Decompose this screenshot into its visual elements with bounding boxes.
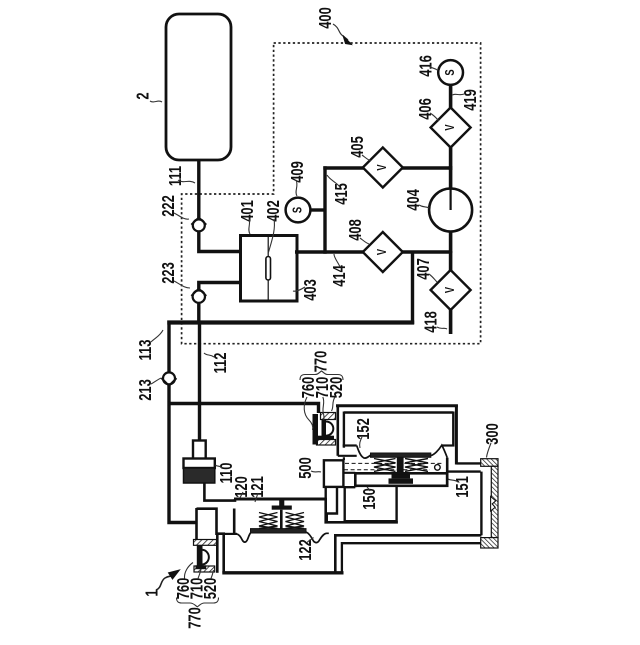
svg-text:520: 520 (327, 376, 347, 398)
label 710 top (313, 376, 333, 420)
label 710 bottom (188, 569, 208, 599)
label 300 (483, 423, 503, 458)
label 122 (296, 538, 316, 561)
needle cap bar2 (389, 478, 414, 483)
svg-text:408: 408 (346, 219, 366, 241)
svg-text:406: 406 (416, 98, 436, 120)
bottom connector hatch lower (194, 566, 215, 572)
svg-text:407: 407 (414, 258, 434, 280)
svg-text:V: V (444, 124, 458, 131)
svg-text:V: V (376, 249, 390, 256)
wire vertical x325 (323, 166, 326, 253)
stub to wall lower line (447, 470, 481, 472)
jog down to long line (326, 513, 328, 522)
label 415 (327, 175, 352, 205)
wire y252 box to pump bottom (295, 250, 451, 253)
label 416 (417, 55, 437, 77)
svg-text:405: 405 (348, 136, 368, 158)
svg-text:414: 414 (330, 265, 350, 287)
chamber 122 right wave (306, 532, 329, 543)
svg-text:111: 111 (166, 166, 186, 186)
label 408 (346, 219, 369, 244)
label 150 (360, 487, 380, 510)
passage 500 to chamber (338, 456, 357, 473)
wire diamond406 to S416 and to y168 (449, 85, 453, 108)
label 121 (248, 476, 268, 502)
dashed boundary 400 (182, 43, 481, 344)
component 110 body (184, 459, 215, 469)
component 110 stem (193, 441, 206, 460)
box 150 upper (355, 473, 447, 486)
svg-text:402: 402 (264, 200, 284, 222)
divider in box 401 (267, 236, 269, 302)
brace top group (300, 371, 343, 380)
body outline left of connector region (197, 509, 224, 573)
funnel inner-left wall (233, 509, 236, 534)
bottom connector black bar (196, 565, 207, 569)
inner chamber bottom right segment (442, 444, 455, 446)
wire tank to valve 222 (197, 160, 200, 219)
valve diamond 405 (363, 148, 403, 188)
top connector black bar bottom (317, 436, 334, 440)
top connector left black bar (313, 414, 319, 445)
dashed centerline upper (345, 462, 444, 464)
top connector inner black bar (322, 420, 327, 438)
svg-text:500: 500 (296, 457, 316, 479)
chamber 152 top bar (371, 453, 431, 457)
label 418 (422, 311, 447, 333)
bottom connector hatch upper (194, 540, 217, 546)
label 110 (216, 462, 237, 483)
label 770 top (300, 350, 343, 380)
chamber 150 right wall (446, 458, 449, 486)
wire diamond 407 top (449, 251, 453, 271)
sensor S 416 (438, 60, 463, 85)
wall 300 web (491, 466, 498, 537)
label 414 (330, 254, 350, 287)
svg-text:416: 416 (417, 55, 437, 77)
long line H3 to wall (342, 543, 482, 573)
label 520 top (327, 376, 347, 411)
wall 300 notch (491, 497, 496, 512)
svg-text:1: 1 (143, 589, 163, 596)
label 402 (264, 200, 284, 254)
body outer left notch (336, 405, 339, 456)
long line H2 to wall (335, 535, 481, 573)
component 110 dark base (184, 468, 215, 483)
svg-text:400: 400 (316, 7, 336, 29)
wire 112 down to 110 (198, 321, 201, 442)
valve diamond 408 (363, 232, 403, 272)
label 223 (159, 262, 190, 288)
svg-text:419: 419 (461, 89, 481, 111)
label 222 (159, 195, 189, 219)
label 404 (404, 189, 429, 211)
inner chamber bottom left segment (343, 444, 357, 446)
svg-text:409: 409 (288, 161, 308, 183)
label 403 (293, 279, 321, 301)
spring left (120 area) (259, 513, 278, 529)
sensor S 409 (286, 198, 311, 223)
wire sensor 409 stub (310, 208, 326, 211)
seat plate (hatched bar) (251, 529, 307, 533)
spring right (152) (405, 459, 428, 472)
needle cap bar1 (392, 474, 411, 479)
label 520 bottom (201, 570, 221, 599)
svg-text:300: 300 (483, 423, 503, 445)
needle rod (280, 510, 283, 529)
svg-text:404: 404 (404, 189, 424, 211)
chamber 152 right wave (431, 445, 447, 457)
valve 223 (191, 289, 206, 303)
label 500 (296, 457, 321, 479)
inner chamber left wall (343, 412, 345, 448)
chamber 122 bottom (222, 571, 343, 574)
top connector hatch upper (321, 413, 336, 420)
label 419 (453, 89, 481, 111)
label 120 (232, 476, 252, 498)
wire y168 to pump branch (323, 166, 450, 169)
wall 300 top flange (481, 459, 498, 467)
svg-text:V: V (376, 164, 390, 171)
body outer top edge (336, 404, 458, 407)
svg-text:113: 113 (136, 339, 156, 360)
channel below 500 (327, 487, 337, 514)
svg-text:223: 223 (159, 262, 179, 284)
wire valve 222 to box 401 upper port (199, 232, 241, 252)
label 401 (238, 200, 258, 234)
svg-text:112: 112 (211, 352, 231, 373)
label 770 bottom (185, 607, 205, 629)
valve diamond 406 (431, 108, 471, 148)
needle bar (272, 506, 292, 510)
body outer right edge (455, 405, 458, 465)
svg-text:520: 520 (201, 577, 221, 599)
label 400 (316, 7, 351, 45)
svg-text:213: 213 (136, 379, 156, 401)
wire y403.5 to top connector (168, 404, 319, 414)
pump 404 (429, 189, 472, 232)
label 112 (204, 352, 231, 373)
svg-text:122: 122 (296, 539, 316, 561)
wire pump bottom (449, 232, 453, 254)
label 407 (414, 258, 437, 282)
label 2 (134, 92, 162, 102)
svg-text:S: S (444, 69, 458, 76)
svg-text:V: V (444, 287, 458, 294)
box 500 (324, 460, 344, 487)
svg-text:403: 403 (301, 279, 321, 301)
junction line y322.5 (167, 320, 414, 324)
box 150 lower (344, 486, 396, 521)
bottom connector left black bar (197, 545, 203, 566)
wire 110 to funnel (204, 483, 235, 501)
svg-text:151: 151 (453, 476, 473, 498)
needle stem (152) (397, 457, 404, 475)
label 760 top (299, 376, 319, 430)
slot 402 (266, 257, 271, 281)
label 760 bottom (174, 563, 194, 600)
wire pump top (449, 166, 453, 189)
inner chamber right wall (452, 412, 454, 446)
bottom connector arc (203, 550, 209, 565)
svg-text:770: 770 (185, 607, 205, 629)
svg-text:152: 152 (354, 418, 374, 440)
label 151 (448, 476, 473, 498)
needle stem in funnel (279, 500, 284, 506)
label 111 (166, 166, 195, 186)
svg-text:401: 401 (238, 200, 258, 222)
wire valve 213 down to bottom connector (169, 385, 197, 523)
small circle in 152 (435, 465, 441, 471)
stub to wall upper line (456, 462, 480, 464)
label 1 with arrow (143, 570, 180, 597)
funnel right wall and line to box150 (326, 498, 398, 523)
wall 300 bottom flange (481, 538, 498, 548)
valve diamond 407 (431, 270, 471, 310)
svg-text:770: 770 (311, 350, 331, 372)
inner chamber top (344, 411, 453, 413)
wire box 401 lower port to valve 223 (199, 283, 241, 291)
svg-text:2: 2 (134, 92, 154, 99)
bottom connector right wall (216, 533, 219, 573)
spring right (120 area) (286, 513, 305, 529)
label 152 (354, 418, 374, 448)
svg-text:S: S (291, 207, 305, 214)
valve 213 (162, 372, 177, 385)
vertical channel right x481 (480, 472, 482, 536)
svg-text:415: 415 (332, 183, 352, 205)
label 213 (136, 378, 161, 401)
wire valve 223 to junction line (197, 303, 200, 324)
chamber 122 ledge left (223, 533, 238, 535)
label 113 (136, 330, 163, 360)
svg-text:150: 150 (360, 488, 380, 510)
svg-text:418: 418 (422, 311, 442, 333)
chamber 122 left wave (237, 533, 251, 543)
label 405 (348, 136, 371, 161)
top connector arc (326, 422, 333, 436)
label 409 (288, 161, 308, 196)
box 401 (241, 236, 298, 302)
wire 418 below diamond 407 (449, 309, 453, 334)
spring left (152) (374, 459, 396, 472)
wire junction to valve 213 (167, 321, 170, 373)
valve 222 (191, 217, 206, 231)
funnel top edge 120 (234, 498, 326, 501)
body wall above bottom connector (195, 508, 198, 540)
chamber 152 left wave (357, 446, 371, 459)
wire branch down x412.5 (411, 252, 414, 324)
dashed centerline lower (344, 469, 430, 471)
brace bottom group (177, 598, 219, 607)
left wall of channel (325, 487, 327, 513)
top connector hatch lower (317, 440, 336, 446)
tank 2 (166, 14, 231, 160)
label 406 (416, 98, 439, 121)
